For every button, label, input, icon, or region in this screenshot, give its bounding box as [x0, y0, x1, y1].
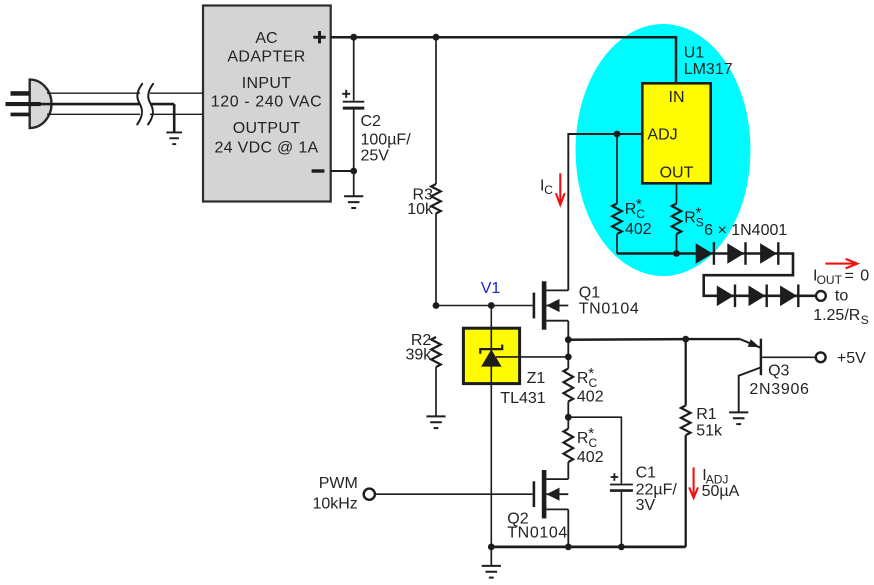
svg-text:6 × 1N4001: 6 × 1N4001 — [704, 222, 787, 239]
wire: TL431 cathode column V1 to ground rail — [490, 306, 492, 547]
wire: diode string row 1 — [617, 254, 816, 296]
ground at R2 — [426, 416, 445, 428]
node at TL431 ref wire — [565, 354, 572, 361]
resistor RC* 402 (ADJ) — [612, 134, 622, 254]
node at Q1 source — [565, 336, 572, 343]
label RC* 402 upper — [577, 365, 604, 406]
wire: TL431 ref to RC node — [496, 356, 568, 358]
resistor R3 10k — [431, 37, 441, 305]
svg-text:ADAPTER: ADAPTER — [227, 48, 305, 65]
node V1 at TL431 — [488, 302, 495, 309]
svg-text:IN: IN — [669, 89, 685, 106]
wire: plug bottom conductor to adapter — [47, 113, 203, 115]
svg-text:OUTPUT: OUTPUT — [233, 120, 301, 137]
cable break marks — [137, 84, 153, 125]
label RC* 402 — [625, 196, 652, 238]
adapter + terminal — [313, 31, 325, 43]
wire: +24V rail from adapter to LM317 IN — [331, 37, 676, 83]
label Q3 2N3906 — [749, 362, 809, 398]
svg-text:R1: R1 — [696, 406, 717, 423]
svg-text:Z1: Z1 — [527, 370, 546, 387]
ground at mains cord — [166, 132, 182, 144]
diode D4 1N4001 — [717, 285, 735, 308]
svg-text:OUT: OUT — [660, 164, 694, 181]
svg-text:Q3: Q3 — [768, 362, 789, 379]
svg-text:100µF/: 100µF/ — [361, 132, 412, 149]
svg-text:LM317: LM317 — [684, 61, 733, 78]
svg-text:R: R — [684, 210, 696, 227]
transistor Q2 TN0104 (NMOS) — [533, 470, 569, 518]
node rail at Q2 source — [565, 544, 572, 551]
resistor R2 39k — [431, 337, 441, 416]
wire: ground rail — [491, 546, 685, 549]
svg-text:402: 402 — [577, 389, 604, 406]
label C2 100uF/25V — [361, 113, 412, 164]
transistor Q1 TN0104 (NMOS) — [533, 281, 569, 329]
diode D3 1N4001 — [760, 242, 778, 265]
svg-text:1.25/R: 1.25/R — [813, 307, 860, 324]
svg-text:25V: 25V — [361, 148, 390, 165]
label IOUT = 0 to 1.25/RS — [813, 267, 870, 327]
label R2 39k — [406, 332, 433, 364]
label Q2 TN0104 — [507, 510, 568, 541]
PWM input terminal — [364, 489, 375, 500]
svg-text:R: R — [577, 370, 589, 387]
label R1 51k — [696, 406, 723, 439]
regulator U1 LM317 — [642, 83, 710, 183]
svg-text:S: S — [861, 313, 869, 327]
svg-text:ADJ: ADJ — [647, 127, 677, 144]
svg-text:C: C — [544, 183, 553, 197]
svg-text:402: 402 — [577, 449, 604, 466]
label IADJ 50uA — [702, 467, 740, 500]
svg-text:Q1: Q1 — [579, 284, 600, 301]
node at C2 bottom — [350, 168, 357, 175]
svg-text:402: 402 — [625, 221, 652, 238]
svg-text:S: S — [696, 215, 704, 229]
label PWM 10kHz — [312, 475, 357, 513]
output terminal — [816, 291, 826, 301]
svg-text:R: R — [577, 430, 589, 447]
diode D6 1N4001 — [780, 285, 798, 308]
svg-text:INPUT: INPUT — [242, 75, 292, 92]
node at RS bottom — [673, 250, 680, 257]
wire: V1 node to Q1 gate — [436, 305, 533, 307]
wire: plug middle conductor to earth — [40, 104, 174, 132]
svg-text:TN0104: TN0104 — [579, 300, 640, 317]
wire: Q2 source to ground rail — [567, 509, 569, 547]
svg-text:22µF/: 22µF/ — [636, 481, 678, 498]
svg-text:51k: 51k — [696, 422, 723, 439]
adapter - terminal — [312, 169, 325, 172]
label Q1 TN0104 — [579, 284, 640, 317]
wire: adapter - to C2 — [331, 170, 354, 172]
svg-text:39k: 39k — [406, 347, 433, 364]
wire: PWM to Q2 gate — [375, 493, 533, 495]
ground at Q3 — [729, 412, 748, 424]
svg-text:+5V: +5V — [837, 350, 866, 367]
ground at rail — [482, 547, 501, 578]
svg-text:C: C — [636, 207, 645, 221]
resistor RS* 402 (OUT) — [672, 183, 682, 253]
red arrow IADJ — [689, 467, 698, 498]
svg-text:120 - 240 VAC: 120 - 240 VAC — [211, 94, 323, 111]
AC adapter block — [203, 6, 331, 202]
wire: plug top conductor to adapter — [47, 92, 203, 94]
red arrow IC — [556, 173, 565, 205]
svg-text:V1: V1 — [481, 280, 501, 297]
node at C2 top — [350, 34, 357, 41]
resistor RC* 402 (upper middle) — [564, 340, 574, 429]
svg-text:C2: C2 — [361, 113, 382, 130]
diode D1 1N4001 — [696, 242, 714, 265]
svg-text:= 0: = 0 — [845, 267, 871, 284]
svg-text:C1: C1 — [636, 465, 657, 482]
capacitor C1 — [568, 417, 633, 547]
svg-text:10kHz: 10kHz — [312, 495, 357, 512]
svg-text:TN0104: TN0104 — [507, 524, 568, 541]
svg-text:U1: U1 — [684, 45, 705, 62]
diode D5 1N4001 — [749, 285, 767, 308]
label Z1 TL431 — [500, 370, 545, 407]
svg-text:PWM: PWM — [319, 475, 358, 492]
node rail at TL431 — [488, 544, 495, 551]
node at R1 top — [682, 336, 689, 343]
svg-text:R: R — [625, 201, 637, 218]
+5V terminal — [816, 352, 826, 362]
node V1 at R3/R2 — [433, 302, 440, 309]
shunt reference Z1 TL431 — [463, 328, 519, 383]
node rail at C1 — [618, 544, 625, 551]
capacitor C2 — [342, 37, 364, 171]
label C1 22uF/3V — [636, 465, 678, 515]
transistor Q3 2N3906 (PNP) — [686, 339, 816, 412]
label RS* — [684, 205, 704, 230]
resistor R1 51k — [681, 339, 691, 547]
svg-text:2N3906: 2N3906 — [749, 381, 809, 398]
node between RC resistors — [565, 414, 572, 421]
resistor RC* 402 (lower middle) — [564, 429, 574, 479]
svg-text:TL431: TL431 — [500, 390, 545, 407]
svg-text:50µA: 50µA — [702, 483, 740, 500]
svg-text:10k: 10k — [407, 201, 434, 218]
svg-text:OUT: OUT — [817, 273, 843, 287]
red arrow IOUT — [825, 259, 857, 269]
diode D2 1N4001 — [727, 242, 745, 265]
node at R3 top — [433, 34, 440, 41]
wire: Q1 source to R1/Q3 rail — [568, 321, 685, 340]
ground at C2 — [344, 171, 363, 208]
wire: Q1 drain to ADJ node — [568, 134, 642, 290]
label R3 10k — [407, 187, 434, 219]
svg-text:to: to — [835, 288, 848, 305]
label U1 LM317 — [684, 45, 733, 79]
wire: TL431 column through box — [490, 328, 492, 383]
svg-text:24 VDC @ 1A: 24 VDC @ 1A — [214, 140, 318, 157]
AC mains plug — [6, 80, 52, 128]
svg-text:C: C — [589, 436, 598, 450]
svg-text:AC: AC — [255, 30, 277, 47]
node at ADJ — [614, 131, 621, 138]
svg-text:3V: 3V — [636, 497, 656, 514]
cyan highlight ellipse around U1 regulator — [576, 24, 751, 276]
label RC* 402 lower — [577, 425, 604, 466]
label IC current — [540, 177, 553, 197]
